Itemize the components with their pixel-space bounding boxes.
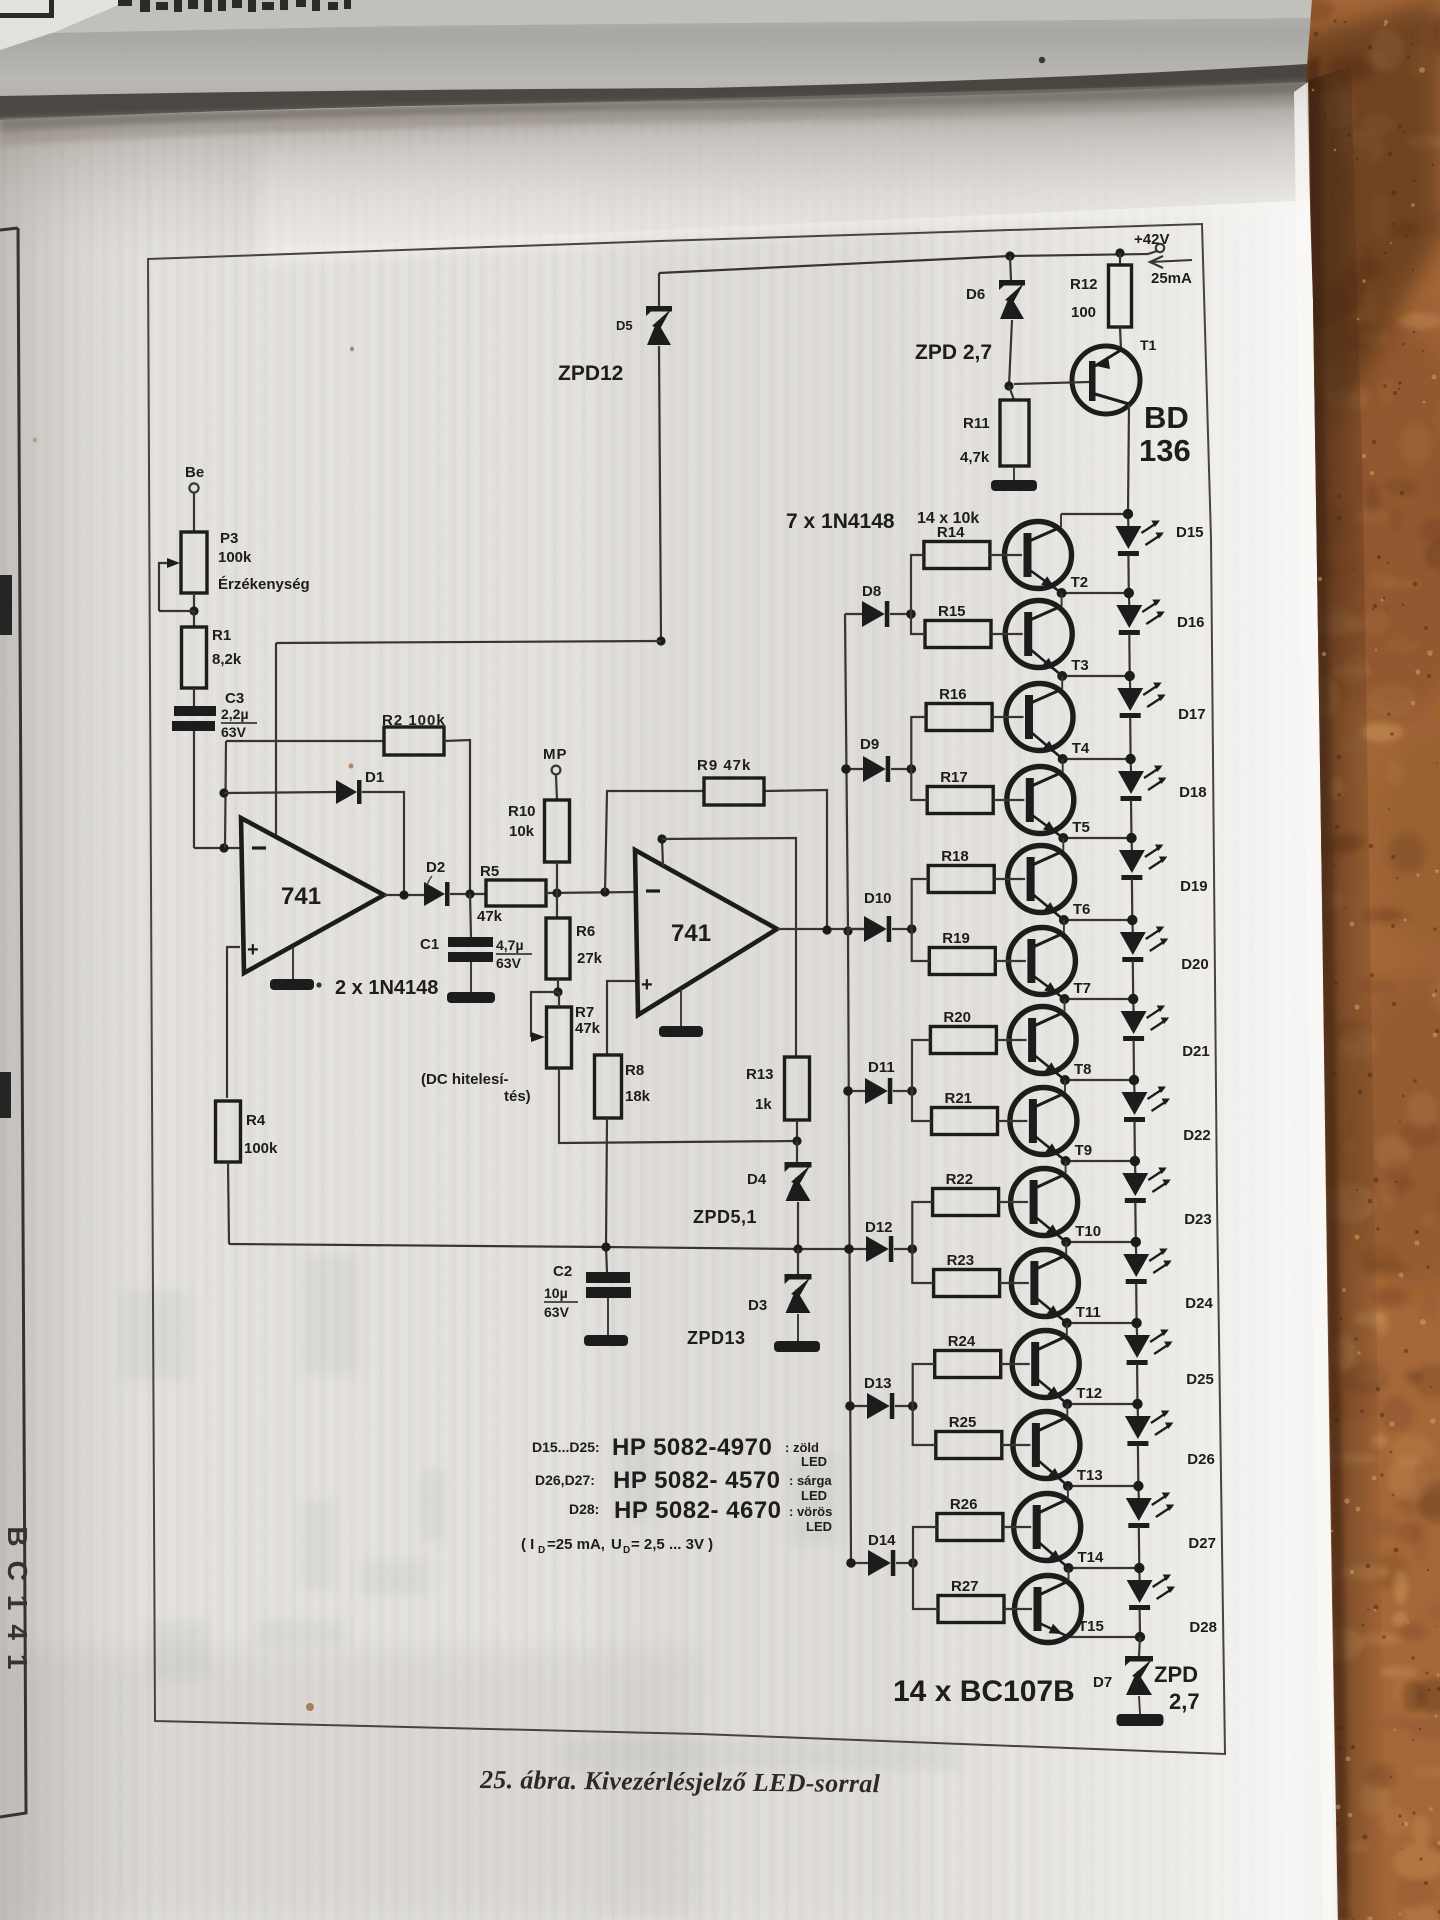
- resistor R13 1k: [785, 1057, 810, 1120]
- wire U2 supply from ZPD12 net: [662, 839, 663, 866]
- zener D5 ZPD12: [658, 273, 660, 306]
- LED D20: [1131, 920, 1134, 932]
- LED D15: [1127, 514, 1130, 526]
- wire T1 collector to LED chain: [1128, 404, 1129, 514]
- cut-off text fragments on rolled page: [118, 0, 351, 12]
- page fore-edge highlight: [1294, 82, 1337, 1920]
- bottom common rail: [229, 1244, 849, 1249]
- transistor T10 BC107B: [1011, 1169, 1078, 1236]
- wire D5 to feedback net: [659, 346, 661, 641]
- wire R8 to bottom rail: [606, 1118, 607, 1247]
- wire R18 to T6 base: [994, 878, 1025, 880]
- ground at D3: [797, 1314, 799, 1341]
- wire R12 to T1 emitter: [1120, 327, 1121, 350]
- LED D24: [1135, 1242, 1138, 1254]
- transistor T3 BC107B: [1005, 601, 1072, 668]
- transistor T12 BC107B: [1012, 1331, 1079, 1398]
- wire R22 to T10 base: [999, 1201, 1029, 1203]
- node R9/output junction: [822, 925, 831, 934]
- transistor T5 BC107B: [1007, 767, 1074, 834]
- wire C3 to op-amp1 inverting input: [193, 731, 195, 848]
- wire R1 to C3: [193, 688, 195, 706]
- zener D7 ZPD2.7 at chain bottom: [1139, 1637, 1140, 1656]
- ground at R11: [1013, 466, 1015, 480]
- resistor R12 100: [1119, 253, 1121, 265]
- node supply/D6 junction: [1005, 251, 1014, 260]
- node inverting input junction: [219, 843, 228, 852]
- ground at D7: [1139, 1696, 1140, 1714]
- resistor R1 8.2k: [193, 611, 195, 627]
- diode bus vertical wire: [845, 614, 851, 1563]
- LED D28: [1138, 1568, 1140, 1580]
- node LED chain tap 11: [1067, 1403, 1137, 1405]
- fly speck on rolled page: [1039, 57, 1045, 63]
- trimpot R7 47k: [547, 1007, 572, 1068]
- node LED chain tap 9: [1066, 1241, 1136, 1243]
- wire R7 to reference rail: [559, 1068, 797, 1143]
- wire D8 junction to resistor pair: [911, 555, 924, 614]
- frame corner of previous figure top-left: [0, 0, 54, 18]
- node C2/R8 on rail: [601, 1242, 610, 1251]
- node U2 inverting junction: [600, 887, 609, 896]
- node ZPD12/U1 supply junction: [656, 636, 665, 645]
- resistor R18 10k: [928, 866, 994, 893]
- node D2/R5/C1 junction: [465, 889, 474, 898]
- node R5/R10/R6 junction: [552, 888, 561, 897]
- LED D18: [1129, 759, 1132, 771]
- node D6/R11/T1 base junction: [1004, 381, 1013, 390]
- ground at U1: [292, 947, 294, 979]
- node bus/output junction: [843, 926, 852, 935]
- node R13/D4/reference junction: [792, 1136, 801, 1145]
- wire P3 bottom to node: [193, 593, 195, 611]
- wire R4 to bottom rail: [228, 1162, 229, 1244]
- node after D11: [893, 1090, 912, 1092]
- left page partial component black mark upper: [0, 575, 12, 635]
- transistor T1 BD136: [1072, 346, 1140, 414]
- LED D19: [1130, 838, 1133, 850]
- rolled previous page at top: [0, 0, 1312, 112]
- node LED chain tap 14: [1069, 1636, 1140, 1638]
- U1 inverting input dash: [252, 846, 266, 849]
- node after D8: [890, 613, 911, 615]
- cork shadow along page edge: [1280, 0, 1440, 1920]
- node LED chain tap 5: [1064, 919, 1132, 921]
- diode D8 1N4148: [845, 613, 862, 615]
- resistor R8 18k: [607, 981, 635, 1055]
- node after D9: [891, 768, 911, 770]
- wire R13 to D4: [796, 1120, 798, 1141]
- node after D14: [896, 1562, 913, 1564]
- cork fine noise: [1306, 0, 1440, 1920]
- dirt specks on page: [306, 1703, 314, 1711]
- resistor R20 10k: [930, 1027, 996, 1054]
- transistor T6 BC107B: [1008, 846, 1075, 913]
- LED D16: [1128, 593, 1131, 605]
- node LED chain tap 12: [1068, 1485, 1139, 1487]
- wire R2 row: [226, 740, 384, 742]
- node bus at D11: [843, 1086, 853, 1096]
- ground at U2: [680, 989, 682, 1026]
- node bus at D14: [846, 1558, 856, 1568]
- node LED chain tap 6: [1065, 998, 1134, 1000]
- node LED chain tap 0: [1061, 513, 1128, 515]
- transistor T15 BC107B: [1015, 1576, 1082, 1643]
- node LED chain tap 4: [1063, 837, 1131, 839]
- wire D14 junction to resistor pair: [913, 1527, 937, 1563]
- zener D4 ZPD5.1: [796, 1141, 798, 1162]
- wire D1 row: [224, 792, 336, 793]
- node bus at D12: [844, 1244, 854, 1254]
- transistor T11 BC107B: [1011, 1250, 1078, 1317]
- diode D13 1N4148: [850, 1405, 867, 1407]
- resistor R16 10k: [926, 704, 992, 731]
- potentiometer P3 100k: [181, 532, 207, 593]
- U2 inverting input dash: [646, 889, 660, 892]
- diode D10 1N4148: [847, 928, 864, 930]
- resistor R10 10k: [545, 800, 570, 862]
- wire R16 to T4 base: [992, 716, 1023, 718]
- wire ZPD12 net to U1 supply: [276, 641, 661, 643]
- wire D13 junction to resistor pair: [913, 1364, 935, 1406]
- capacitor C2 10u/63V: [606, 1247, 607, 1272]
- transistor T7 BC107B: [1008, 928, 1075, 995]
- cork mottle patches: [1282, 0, 1440, 1920]
- LED D26: [1136, 1404, 1139, 1416]
- warm shadow under page gap: [0, 92, 1312, 146]
- resistor R23 10k: [934, 1270, 1000, 1297]
- wire C1 from node down: [470, 894, 471, 937]
- node after D12: [894, 1248, 912, 1250]
- wire D2 to R5: [450, 893, 486, 895]
- wire Be to P3: [193, 493, 195, 531]
- ghost bleed-through marks: [120, 1255, 960, 1770]
- node after D13: [895, 1405, 913, 1407]
- wire R27 to T15 base: [1004, 1608, 1032, 1610]
- resistor R14 10k: [924, 542, 990, 569]
- wire MP to R10: [556, 775, 557, 800]
- wire R15 to T3 base: [991, 633, 1023, 635]
- transistor T4 BC107B: [1006, 684, 1073, 751]
- resistor R2 100k: [384, 727, 444, 755]
- resistor R15 10k: [925, 621, 991, 648]
- diode D1: [336, 780, 357, 804]
- node P3/R1 junction: [189, 606, 198, 615]
- wire T1 base: [1014, 382, 1089, 384]
- capacitor C3 2.2u/63V: [174, 706, 216, 716]
- LED D22: [1133, 1080, 1136, 1092]
- P3 wiper arm: [159, 563, 167, 611]
- diode D12 1N4148: [849, 1248, 866, 1250]
- resistor R5 47k: [486, 880, 546, 906]
- wire D12 junction to resistor pair: [912, 1202, 932, 1249]
- node D1 feedback junction: [219, 788, 228, 797]
- node LED chain tap 8: [1066, 1160, 1135, 1162]
- diode D11 1N4148: [848, 1090, 865, 1092]
- wire D11 junction to resistor pair: [912, 1040, 930, 1091]
- resistor R19 10k: [929, 948, 995, 975]
- diode D2: [424, 882, 445, 906]
- left page frame border line: [0, 228, 26, 1817]
- capacitor C1 4.7u/63V: [448, 937, 493, 947]
- left page partial component black mark lower: [0, 1072, 11, 1118]
- LED D21: [1132, 999, 1135, 1011]
- wire D1 to output node: [362, 792, 404, 895]
- resistor R22 10k: [933, 1189, 999, 1216]
- white corner of page under roll top-left: [0, 0, 130, 50]
- zener D3 ZPD13: [797, 1249, 799, 1274]
- wire U1 output: [384, 894, 424, 896]
- schematic border frame: [148, 224, 1225, 1754]
- LED D23: [1134, 1161, 1137, 1173]
- node U1 output junction: [399, 890, 408, 899]
- transistor T9 BC107B: [1010, 1088, 1077, 1155]
- transistor T8 BC107B: [1009, 1007, 1076, 1074]
- wire R23 to T11 base: [1000, 1282, 1029, 1284]
- label 2x1N4148: [316, 982, 321, 987]
- op-amp U1 741: [241, 818, 384, 973]
- resistor R11 4.7k: [1009, 386, 1014, 400]
- wire R26 to T14 base: [1003, 1526, 1031, 1528]
- cork dark speckles: [1312, 19, 1440, 1920]
- node bus at D13: [845, 1401, 855, 1411]
- node supply/R12 junction: [1115, 248, 1124, 257]
- wire R14 to T2 base: [990, 554, 1022, 556]
- op-amp U2 741: [635, 850, 777, 1015]
- resistor R27 10k: [938, 1596, 1004, 1623]
- wire R20 to T8 base: [996, 1039, 1026, 1041]
- wire U1 plus input to R4: [227, 947, 240, 1098]
- bright strip below page gap: [260, 104, 1314, 262]
- resistor R17 10k: [927, 787, 993, 814]
- cork large dark regions: [1305, 320, 1440, 1290]
- node LED chain tap 3: [1063, 758, 1131, 760]
- node LED chain tap 7: [1065, 1079, 1134, 1081]
- transistor T14 BC107B: [1014, 1494, 1081, 1561]
- resistor R26 10k: [937, 1514, 1003, 1541]
- resistor R6 27k: [556, 893, 558, 918]
- zener D6 ZPD2.7: [1010, 256, 1011, 280]
- resistor R25 10k: [936, 1432, 1002, 1459]
- wire D10 junction to resistor pair: [912, 879, 929, 929]
- node LED chain tap 2: [1062, 675, 1130, 677]
- U1 supply stub from ZPD12 net: [275, 643, 277, 835]
- node R6/R7 junction: [557, 979, 559, 992]
- dark gap shadow line between pages: [0, 64, 1309, 120]
- wire R5 to node: [546, 892, 635, 893]
- wire R21 to T9 base: [998, 1120, 1028, 1122]
- terminal +42V: [1156, 244, 1164, 252]
- node LED chain tap 1: [1062, 592, 1129, 594]
- wire R2 to D2 node: [444, 740, 470, 894]
- wire R17 to T5 base: [993, 799, 1024, 801]
- node LED chain tap 13: [1069, 1567, 1140, 1569]
- diode D14 1N4148: [851, 1562, 868, 1564]
- cork board background right side: [1306, 0, 1440, 1920]
- terminal MP: [552, 766, 561, 775]
- wire R25 to T13 base: [1002, 1444, 1031, 1446]
- wire D4 to rail: [797, 1202, 799, 1249]
- wire D9 junction to resistor pair: [911, 717, 926, 769]
- ground at C2: [607, 1298, 609, 1335]
- resistor R9 47k: [704, 778, 764, 805]
- LED D17: [1129, 676, 1132, 688]
- wire ZPD12 net to R13: [662, 838, 796, 1057]
- resistor R24 10k: [935, 1351, 1001, 1378]
- wire U2 output row: [777, 928, 865, 930]
- wire R10 to node: [556, 862, 558, 893]
- wire R19 to T7 base: [995, 960, 1026, 962]
- LED D27: [1137, 1486, 1140, 1498]
- transistor T2 BC107B: [1005, 522, 1072, 589]
- node LED chain tap 10: [1067, 1322, 1137, 1324]
- node after D10: [892, 928, 912, 930]
- wire supply rail top: [659, 254, 1148, 273]
- node D4/D3 junction on rail: [793, 1244, 802, 1253]
- wire R24 to T12 base: [1001, 1363, 1030, 1365]
- terminal Be: [189, 483, 198, 492]
- wire D6 to R11 node: [1009, 320, 1012, 386]
- current arrow 25mA: [1151, 260, 1192, 262]
- shadow gradient under page gap: [0, 82, 1317, 260]
- LED D25: [1135, 1323, 1138, 1335]
- resistor R21 10k: [932, 1108, 998, 1135]
- node ZPD12 net junction at U2: [657, 834, 666, 843]
- resistor R4 100k: [216, 1101, 241, 1162]
- ground at C1: [470, 962, 472, 992]
- feedback resistor R9 47k wires: [605, 791, 704, 892]
- node bus at D9: [841, 764, 851, 774]
- transistor T13 BC107B: [1013, 1412, 1080, 1479]
- diode D9 1N4148: [846, 768, 863, 770]
- feedback vertical wire: [225, 741, 226, 848]
